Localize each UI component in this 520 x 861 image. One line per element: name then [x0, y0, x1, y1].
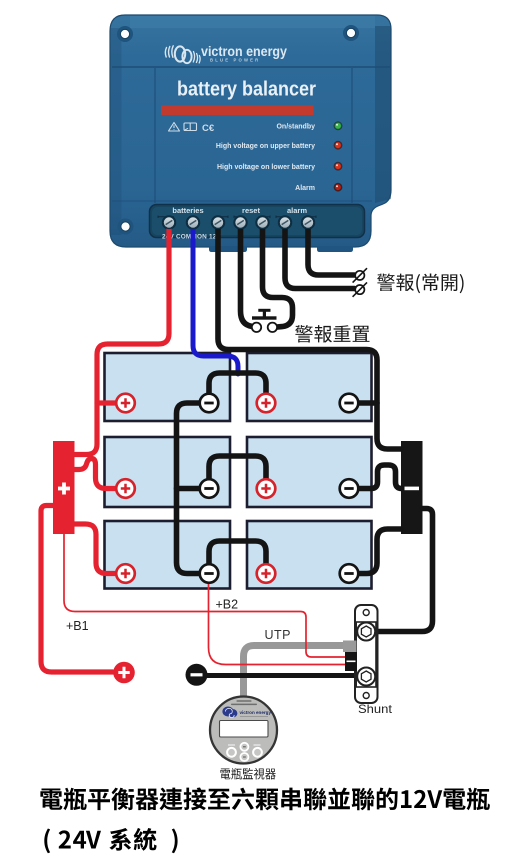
warning icon: [169, 123, 180, 132]
wire B4 minus to busbar with hop: [359, 465, 402, 489]
caption line 2: [44, 828, 177, 853]
svg-text:reset: reset: [242, 206, 260, 215]
terminal 4: [233, 215, 247, 229]
negative busbar: [401, 441, 423, 534]
red accent bar: [161, 106, 314, 116]
battery B4 12V: [247, 437, 372, 507]
label alarm normally-open (Chinese): [377, 274, 464, 294]
wire stub to B1 plus: [97, 400, 117, 405]
caption line 1: [40, 788, 490, 811]
reset button contact left: [252, 323, 261, 332]
wire 12V black from terminal 3 to B2 minus and busbar: [218, 224, 401, 449]
svg-text:Alarm: Alarm: [295, 185, 315, 192]
battery B6 12V: [247, 521, 372, 589]
bracket reset: [234, 216, 270, 219]
terminal 7: [301, 215, 315, 229]
svg-text:+B1: +B1: [66, 619, 89, 633]
negative busbar minus symbol: [405, 487, 420, 491]
system minus terminal: [186, 664, 208, 686]
wire alarm upper from terminal 7: [308, 224, 355, 275]
label alarm reset (Chinese): [295, 325, 369, 343]
svg-text:alarm: alarm: [287, 206, 307, 215]
wire busbar to B5 plus: [74, 524, 116, 574]
minus terminal row 1 left: [200, 394, 219, 413]
terminal screw heads overlay: [162, 216, 314, 229]
wire system minus to shunt: [206, 673, 357, 678]
LED On/standby: [334, 121, 343, 130]
svg-text:batteries: batteries: [172, 206, 203, 215]
wire busbar to shunt: [374, 509, 433, 632]
svg-text:+B2: +B2: [216, 598, 239, 612]
wire series link row 1: [209, 373, 266, 394]
victron energy logo: [165, 44, 287, 63]
battery B5 12V: [105, 521, 231, 589]
minus terminal row 2 left: [200, 479, 219, 498]
wire reset left from terminal 4: [241, 224, 252, 326]
minus terminal row 2 right: [340, 479, 359, 498]
alarm contact lower: [353, 282, 367, 296]
minus terminal row 3 left: [200, 564, 219, 583]
minus terminal row 3 right: [340, 564, 359, 583]
wire stub B2 minus: [358, 400, 377, 406]
battery B3 12V: [105, 437, 231, 507]
battery B2 12V: [247, 353, 372, 421]
reset button actuator: [252, 309, 277, 320]
terminal strip: [150, 205, 365, 238]
LED High voltage on upper battery: [334, 141, 343, 150]
terminal 3: [211, 215, 225, 229]
wire busbar to B3 plus: [74, 459, 116, 489]
system plus terminal: [113, 662, 135, 684]
balancer U1 body: [110, 15, 391, 247]
shunt UTP connector: [343, 641, 357, 672]
wire busbar to system plus: [41, 506, 113, 673]
shunt bolt top: [357, 623, 375, 641]
svg-text:High voltage on lower battery: High voltage on lower battery: [217, 164, 315, 171]
svg-text:victron energy: victron energy: [240, 710, 272, 715]
svg-text:C€: C€: [202, 123, 215, 134]
plus terminal row 3 left: [116, 564, 135, 583]
bracket batteries: [158, 216, 228, 219]
svg-text:High voltage on upper battery: High voltage on upper battery: [216, 143, 315, 150]
battery monitor BMV: [210, 697, 277, 764]
terminal 6: [278, 215, 292, 229]
battery B1 12V: [105, 353, 231, 421]
positive busbar: [53, 441, 75, 534]
shunt bolt bottom: [357, 668, 375, 686]
label battery monitor (Chinese): [220, 768, 275, 780]
minus terminal row 1 right: [340, 394, 359, 413]
terminal 1: [162, 215, 176, 229]
svg-text:battery balancer: battery balancer: [177, 78, 316, 101]
wire COMMON blue from terminal 2 to midpoint: [193, 224, 238, 374]
wire series link row 3: [209, 541, 266, 564]
screw hole bottom-right: [344, 219, 360, 235]
svg-text:BLUE POWER: BLUE POWER: [210, 58, 260, 63]
plus terminal row 2 left: [116, 479, 135, 498]
reset button contact right: [268, 323, 277, 332]
wire B6 minus to busbar: [359, 529, 402, 574]
wire series link row 2: [209, 456, 266, 479]
LED Alarm: [334, 183, 343, 192]
wire midpoint bus vertical: [177, 403, 200, 574]
positive busbar plus symbol: [58, 483, 70, 495]
alarm contact upper: [353, 268, 367, 282]
svg-text:On/standby: On/standby: [276, 123, 315, 130]
bracket alarm: [276, 216, 316, 219]
plus terminal row 1 left: [116, 394, 135, 413]
screw hole bottom-left: [118, 219, 134, 235]
wire alarm lower from terminal 6: [285, 224, 355, 289]
wire +B2 sense: [209, 583, 347, 665]
svg-text:UTP: UTP: [265, 628, 292, 642]
svg-text:Shunt: Shunt: [358, 702, 393, 716]
plus terminal row 2 right: [257, 479, 276, 498]
LED High voltage on lower battery: [334, 162, 343, 171]
wire reset right from terminal 5: [263, 224, 293, 327]
shunt plate: [355, 605, 378, 703]
plus terminal row 1 right: [257, 394, 276, 413]
screw hole top-left: [117, 26, 133, 42]
terminal 2: [186, 215, 200, 229]
manual icon: [184, 123, 197, 131]
terminal 5: [255, 215, 269, 229]
plus terminal row 3 right: [257, 564, 276, 583]
wire +B1 sense: [64, 534, 346, 657]
wire 24V red from terminal 1 to battery B1 plus and busbar: [75, 224, 169, 455]
wire midpoint bus stub row 2: [177, 486, 200, 492]
screw hole top-right: [343, 25, 359, 41]
mounting tabs bottom: [209, 246, 353, 252]
UTP cable: [244, 646, 344, 700]
